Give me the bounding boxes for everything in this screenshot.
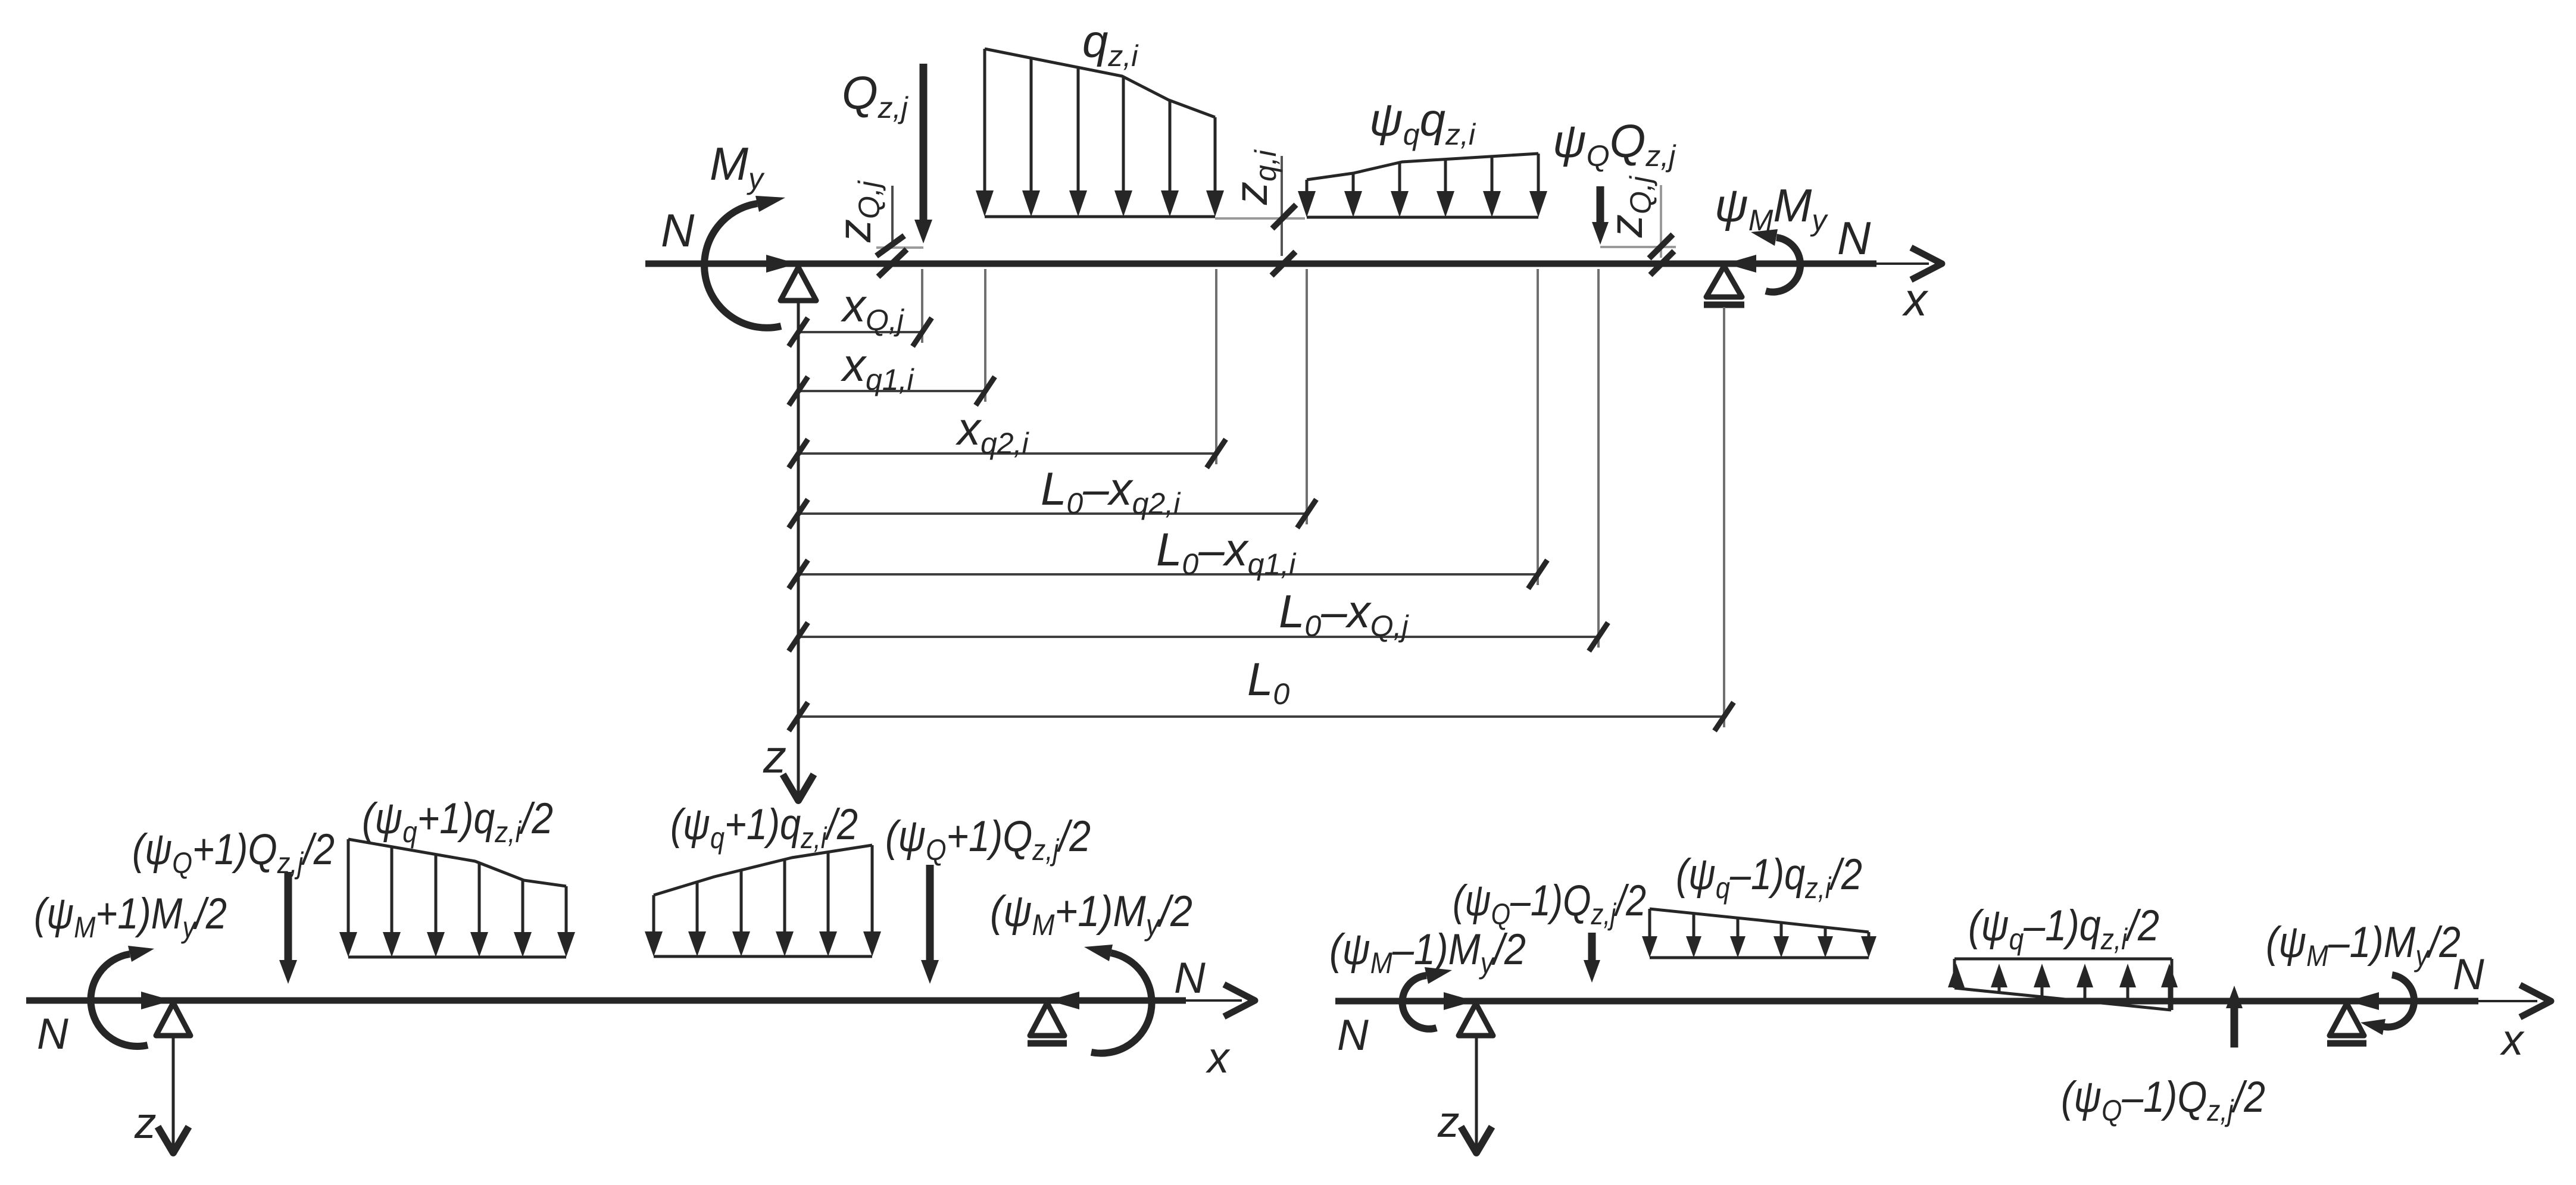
z_Q,j right break slashes (1649, 235, 1673, 258)
dimension line 7 (789, 307, 1734, 731)
dimension line 2 (789, 269, 995, 405)
pin support left (bottom-left) (156, 1003, 191, 1036)
svg-text:N: N (1337, 1011, 1369, 1059)
dimension line 1 (789, 269, 932, 346)
moment arc right (bottom-right) (2360, 975, 2414, 1035)
svg-text:(ψq+1)qz,i/2: (ψq+1)qz,i/2 (670, 801, 858, 855)
svg-text:(ψM+1)My/2: (ψM+1)My/2 (34, 890, 227, 944)
dimension line 5 (789, 269, 1547, 589)
N force arrow left (bottom-right) (1444, 992, 1475, 1010)
svg-text:(ψq–1)qz,i/2: (ψq–1)qz,i/2 (1676, 851, 1862, 905)
dimension line 3 (789, 269, 1226, 468)
z axis (bottom-right) (1475, 1038, 1478, 1146)
point load arrow down (bottom-right) (1588, 933, 1596, 961)
z_q,i level line (1215, 217, 1305, 220)
N force arrow left (top) (766, 255, 797, 273)
svg-text:(ψM–1)My/2: (ψM–1)My/2 (1329, 926, 1526, 980)
distributed load psi_q q_z,i (1298, 154, 1547, 217)
svg-text:(ψq+1)qz,i/2: (ψq+1)qz,i/2 (362, 795, 553, 849)
distributed load q_z,i (976, 49, 1224, 217)
beam (top diagram) (645, 261, 1876, 267)
point load arrow up (bottom-right) (2231, 1008, 2238, 1048)
pin support left (top) (780, 267, 816, 301)
roller support right (bottom-left) (1030, 1003, 1064, 1036)
svg-text:z: z (1437, 1098, 1460, 1146)
roller support right (top) (1706, 266, 1742, 297)
svg-text:(ψM+1)My/2: (ψM+1)My/2 (990, 887, 1192, 942)
N force arrow right (bottom-left) (1048, 992, 1079, 1009)
beam (bottom-right diagram) (1335, 998, 2478, 1005)
svg-text:x: x (2500, 1016, 2525, 1064)
N force arrow right (bottom-right) (2348, 992, 2379, 1010)
z_Q,j offset corner (gray) (891, 186, 894, 247)
svg-text:N: N (661, 204, 695, 257)
z_q,i break slashes (1272, 205, 1296, 229)
N force arrow left (bottom-left) (141, 992, 172, 1009)
svg-text:N: N (2453, 950, 2484, 999)
x axis arrow (top) (1911, 248, 1942, 280)
distributed load down (bottom-right) (1642, 909, 1876, 958)
svg-text:x: x (1206, 1034, 1231, 1082)
point load arrow left (bottom-left) (285, 872, 292, 962)
distributed load 2 (bottom-left) (645, 845, 881, 956)
dimension line 4 (789, 269, 1316, 528)
point load psi_Q Q_z,j arrow (1597, 186, 1604, 226)
beam (bottom-left diagram) (26, 998, 1186, 1004)
svg-text:(ψQ–1)Qz,j/2: (ψQ–1)Qz,j/2 (2061, 1073, 2265, 1127)
moment arc left (bottom-right) (1402, 967, 1452, 1029)
roller support right (bottom-right) (2330, 1003, 2364, 1036)
x axis arrow (bottom-right) (2520, 985, 2551, 1017)
svg-text:(ψM–1)My/2: (ψM–1)My/2 (2266, 918, 2461, 973)
svg-text:(ψQ+1)Qz,j/2: (ψQ+1)Qz,j/2 (132, 826, 335, 880)
x axis arrow (bottom-left) (1224, 984, 1255, 1017)
svg-text:z: z (763, 730, 786, 783)
distributed load up (bottom-right) (1948, 959, 2178, 1010)
N force arrow right (top) (1725, 255, 1756, 273)
moment psi_M M_y arc (top right) (1751, 229, 1800, 292)
svg-text:(ψQ–1)Qz,j/2: (ψQ–1)Qz,j/2 (1453, 877, 1646, 931)
z_Q,j right offset corner (gray) (1660, 185, 1662, 258)
z_Q,j break slashes (876, 236, 904, 256)
moment M_y arc (top left) (704, 196, 785, 328)
point load arrow right (bottom-left) (926, 865, 934, 962)
svg-text:(ψQ+1)Qz,j/2: (ψQ+1)Qz,j/2 (885, 812, 1091, 867)
dimension line 6 (789, 269, 1608, 651)
moment arc left (bottom-left) (90, 946, 154, 1046)
distributed load 1 (bottom-left) (339, 839, 575, 957)
pin support left (bottom-right) (1459, 1003, 1493, 1036)
z_q,i reference line (1281, 156, 1283, 256)
svg-text:N: N (1837, 212, 1871, 264)
svg-text:N: N (1174, 954, 1206, 1002)
point load Q_z,j arrow (920, 64, 928, 223)
z axis (bottom-left) (172, 1038, 175, 1146)
svg-text:x: x (1901, 273, 1929, 326)
svg-text:(ψq–1)qz,i/2: (ψq–1)qz,i/2 (1968, 902, 2159, 956)
svg-text:N: N (37, 1010, 68, 1058)
z axis (top) (797, 301, 800, 795)
moment arc right (bottom-left) (1084, 945, 1152, 1053)
svg-text:z: z (134, 1099, 157, 1148)
